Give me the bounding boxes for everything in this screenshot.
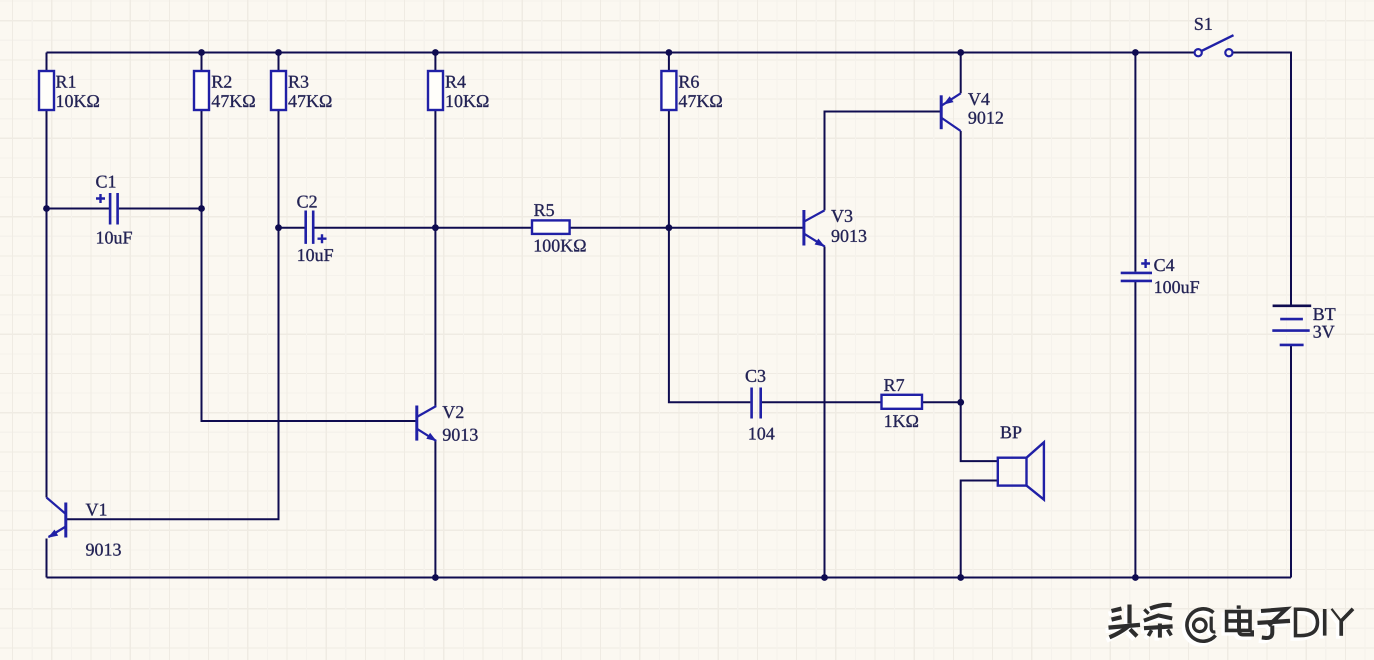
label text 47Kohm — [212, 95, 255, 107]
battery BT plate 3 — [1272, 329, 1309, 332]
watermark glyph tou long horizontal — [1109, 625, 1141, 628]
label text C2 — [297, 196, 316, 208]
watermark glyph dian box — [1227, 612, 1250, 631]
watermark letter Y thin diagonal — [1332, 609, 1341, 621]
wire C2 to R5 — [314, 227, 532, 229]
label text C3 — [746, 370, 766, 382]
watermark glyph tou vertical — [1127, 605, 1131, 624]
wire R7 to V4 collector line — [922, 401, 961, 403]
label text C4 — [1154, 259, 1174, 271]
label text 9013 — [443, 429, 478, 441]
label text 10uF — [298, 249, 333, 261]
label text R2 — [212, 76, 232, 88]
wire C4 branch upper — [1134, 53, 1136, 272]
junction node C2 at R3 line — [275, 224, 282, 231]
resistor R6 body — [661, 71, 676, 110]
battery BT plate 2 — [1280, 318, 1303, 321]
junction bottom rail V3 emitter — [821, 574, 828, 581]
label text R4 — [446, 76, 466, 88]
watermark at sign outer ring — [1187, 609, 1216, 641]
junction top rail R2 — [198, 49, 205, 56]
transistor V3 emitter arrow — [815, 239, 825, 247]
transistor V4 base bar — [940, 95, 943, 129]
watermark glyph tiao vertical — [1158, 624, 1162, 638]
wire R6 branch down to C3 — [669, 53, 751, 403]
junction bottom rail C4 — [1132, 574, 1139, 581]
transistor V4 emitter arrow — [943, 96, 953, 104]
transistor V1 base bar — [64, 503, 67, 538]
wire bottom rail — [47, 577, 1292, 579]
resistor R1 body — [39, 71, 54, 110]
resistor R7 body — [882, 395, 923, 409]
battery BT plate 1 — [1273, 304, 1312, 307]
label text 10Kohm — [447, 95, 489, 107]
label text 100Kohm — [535, 240, 586, 252]
wire left rail (R1 branch to V1 collector) — [46, 53, 48, 498]
plus sign of C4 — [1141, 259, 1150, 268]
watermark at sign inner circle — [1194, 619, 1207, 632]
watermark glyph tiao small diagonal — [1144, 609, 1148, 613]
label text C1 — [96, 176, 115, 188]
junction bottom rail V2 emitter — [432, 574, 439, 581]
watermark dark layer: tou tiao @ dian zi DIY — [1109, 605, 1354, 642]
resistor R5 body — [532, 220, 570, 234]
label text V3 — [831, 210, 852, 222]
speaker BP box — [998, 458, 1027, 486]
transistor V2 collector diagonal — [417, 406, 436, 417]
wire V3 collector up and across to V4 base — [825, 112, 941, 211]
transistor V3 collector diagonal — [804, 210, 825, 221]
transistor V3 emitter diagonal — [804, 234, 825, 247]
transistor V4 emitter diagonal — [941, 93, 961, 106]
watermark glyph tiao top curve — [1150, 605, 1172, 609]
junction top rail R3 — [275, 49, 282, 56]
label text 104 — [749, 428, 774, 440]
label text BT — [1313, 308, 1335, 320]
junction top rail R6 — [666, 49, 673, 56]
transistor V2 emitter arrow — [426, 433, 436, 441]
watermark white shadow layer — [1106, 608, 1351, 645]
watermark glyph tiao right dot — [1168, 630, 1172, 636]
wire C1 left segment — [47, 208, 110, 210]
label text 9013 — [832, 230, 867, 242]
label text R7 — [884, 379, 904, 391]
resistor R4 body — [428, 71, 443, 110]
junction C1 left — [43, 205, 50, 212]
resistor R2 body — [194, 71, 209, 110]
label text 9013 — [86, 544, 121, 556]
wire C3 to R7 — [762, 401, 882, 403]
label text 47Kohm — [288, 95, 331, 107]
plus sign of C1 — [96, 194, 105, 203]
watermark glyph tou falling stroke — [1110, 626, 1129, 637]
label text 100uF — [1155, 281, 1199, 293]
transistor V1 emitter diagonal — [49, 527, 66, 538]
watermark glyph dian vertical — [1237, 611, 1241, 631]
label text 9012 — [969, 112, 1003, 124]
watermark glyph zi horizontal — [1258, 621, 1291, 623]
transistor V2 base bar — [415, 406, 418, 441]
resistor R3 body — [271, 71, 286, 110]
junction C1 right R2 line — [198, 205, 205, 212]
wire R5 to V3 base — [570, 227, 804, 229]
transistor V3 base bar — [802, 210, 805, 246]
wire V4 emitter to top rail — [960, 53, 962, 94]
label text R1 — [56, 76, 75, 88]
wire V3 emitter to bottom rail — [824, 247, 826, 578]
transistor V1 emitter arrow — [48, 530, 58, 538]
capacitor C3 plates — [752, 388, 761, 419]
junction top rail V4 emitter — [957, 49, 964, 56]
junction top rail C4 — [1132, 49, 1139, 56]
watermark letter D — [1296, 609, 1318, 635]
wire top rail — [47, 52, 1195, 54]
junction bottom rail V4 line — [957, 574, 964, 581]
label text V2 — [443, 406, 464, 418]
switch S1 lever — [1202, 35, 1234, 51]
watermark glyph zi top stroke — [1261, 609, 1286, 626]
wire V4 collector down to speaker upper stub — [961, 131, 998, 461]
wire C4 branch lower — [1134, 282, 1136, 578]
watermark glyph tiao left dot — [1148, 630, 1151, 636]
transistor V1 collector diagonal — [47, 498, 66, 515]
wire V2 emitter to bottom rail — [434, 441, 436, 578]
watermark glyph tou dash 1 — [1112, 609, 1122, 611]
watermark letter Y stem — [1339, 620, 1343, 635]
label text 47Kohm — [679, 95, 722, 107]
wire speaker lower stub to bottom rail — [961, 481, 998, 578]
watermark letter Y thick diagonal — [1341, 609, 1353, 621]
wire battery bottom to rail — [1290, 346, 1292, 578]
watermark glyph tou dot — [1130, 629, 1137, 636]
label text 10Kohm — [57, 95, 99, 107]
battery BT plate 4 — [1280, 344, 1304, 347]
label text 1Kohm — [885, 415, 918, 427]
label text BP — [1001, 426, 1022, 438]
watermark glyph tiao horizontal — [1144, 626, 1173, 628]
junction R5 wire at R4 line — [432, 224, 439, 231]
wire C1 right segment — [119, 208, 202, 210]
junction R5 wire at R6 line — [666, 224, 673, 231]
junction R7 at V4 collector line — [957, 399, 964, 406]
junction top rail R4 — [432, 49, 439, 56]
switch S1 left contact — [1195, 49, 1202, 56]
speaker BP cone — [1027, 442, 1044, 499]
wire V1 emitter to bottom rail — [46, 539, 48, 578]
watermark letter I — [1323, 609, 1327, 636]
label text 3V — [1314, 326, 1335, 338]
label text V1 — [86, 504, 107, 516]
label text S1 — [1195, 18, 1212, 30]
watermark glyph dian top tick — [1237, 605, 1241, 608]
watermark glyph tou dash 2 — [1112, 617, 1122, 619]
watermark glyph dian bottom hook — [1239, 630, 1252, 635]
transistor V4 collector diagonal — [941, 118, 961, 131]
label text 10uF — [97, 232, 132, 244]
label text R5 — [534, 204, 554, 216]
wire R3 branch down to V1 base — [67, 53, 279, 520]
label text V4 — [968, 93, 990, 105]
plus sign of C2 — [318, 234, 327, 243]
wire R2 branch down to V2 base — [202, 53, 417, 422]
watermark glyph dian middle line — [1227, 619, 1250, 623]
watermark at sign tail — [1211, 617, 1215, 632]
capacitor C4 plates — [1121, 273, 1152, 281]
transistor V2 emitter diagonal — [417, 429, 436, 441]
capacitor C2 plates — [306, 211, 314, 244]
wire node C2 left — [279, 227, 305, 229]
switch S1 right contact — [1225, 49, 1232, 56]
label text R3 — [289, 76, 309, 88]
capacitor C1 plates — [110, 193, 118, 225]
watermark glyph tiao chevron — [1144, 615, 1172, 620]
wire R4 branch to V2 collector — [434, 53, 436, 407]
watermark glyph zi vertical hook — [1262, 626, 1273, 639]
label text R6 — [679, 76, 699, 88]
wire top rail right segment to battery — [1233, 53, 1291, 305]
